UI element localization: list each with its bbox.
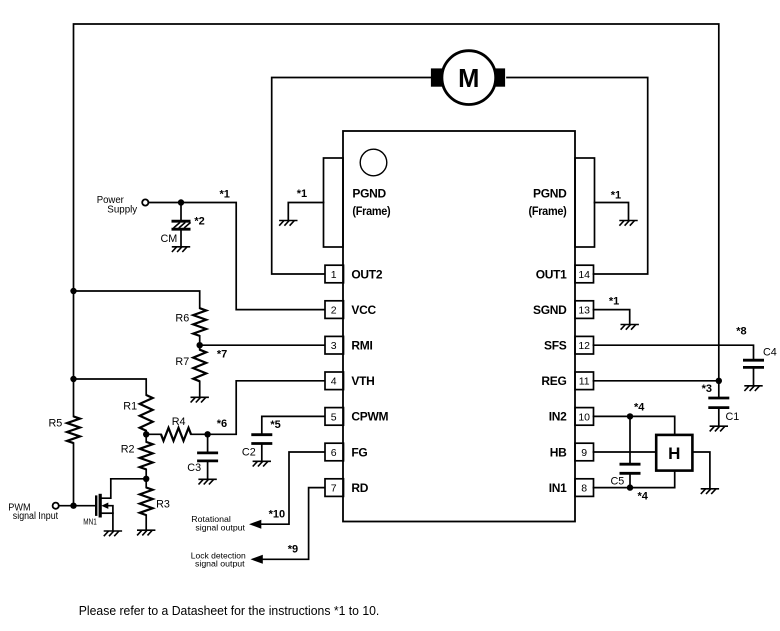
svg-text:*1: *1 [220, 189, 230, 201]
junction: R1/R2/R4 node [143, 431, 149, 437]
svg-text:*1: *1 [609, 295, 619, 307]
svg-text:VCC: VCC [351, 303, 376, 317]
wire: RMI node to pin 3 [200, 344, 325, 346]
svg-text:*4: *4 [638, 491, 649, 503]
wire: rail to R6 top [74, 291, 200, 308]
svg-text:SFS: SFS [544, 339, 567, 353]
svg-text:R4: R4 [172, 416, 186, 428]
wire: pin 1 OUT2 to motor [272, 78, 431, 275]
transistor MN1 (N-MOSFET) [83, 479, 113, 531]
svg-text:Supply: Supply [107, 204, 137, 215]
svg-text:R5: R5 [49, 417, 63, 429]
svg-text:REG: REG [541, 374, 566, 388]
wire: R1 bottom to node [145, 431, 147, 435]
ground (SGND) [621, 325, 639, 330]
svg-text:R2: R2 [121, 444, 135, 456]
resistor R1 [123, 395, 152, 431]
ground (R7) [191, 397, 209, 402]
resistor R7 [175, 345, 206, 381]
svg-text:R7: R7 [175, 356, 189, 368]
svg-text:CPWM: CPWM [351, 410, 388, 424]
svg-text:6: 6 [331, 447, 337, 459]
wire: pin 13 SGND to ground [594, 310, 630, 325]
wire: R2 bottom to node [145, 469, 147, 478]
pin 1 indicator circle [360, 149, 387, 176]
wire: MN1 drain to R2/R3 node [111, 478, 146, 480]
svg-text:HB: HB [550, 445, 567, 459]
svg-text:*5: *5 [270, 419, 280, 431]
svg-text:CM: CM [161, 233, 178, 245]
ground (MN1 source) [104, 531, 122, 536]
pin 11 (REG) [541, 372, 593, 390]
svg-text:13: 13 [578, 305, 590, 317]
wire: PWM input to MN1 gate [59, 505, 95, 507]
svg-text:R6: R6 [175, 313, 189, 325]
svg-text:8: 8 [581, 483, 587, 495]
wire: left rail lower segment (R5 to PWM node) [73, 443, 75, 506]
wire: hall H to ground [692, 452, 710, 489]
svg-text:2: 2 [331, 305, 337, 317]
wire: left PGND to ground [288, 203, 323, 221]
label: Rotational signal output [191, 514, 245, 532]
capacitor C1 [708, 381, 739, 426]
wire: motor to pin 14 OUT1 [507, 78, 648, 275]
wire: R6 bottom to RMI node [199, 336, 201, 345]
ground (C4) [744, 386, 762, 391]
svg-text:*6: *6 [217, 418, 227, 430]
arrow: rotational signal output (*10) [249, 509, 285, 529]
wire: node *6 to VTH (pin 4) [208, 381, 325, 435]
ground (right PGND) [619, 221, 637, 226]
wire: right PGND to ground [595, 203, 629, 221]
svg-text:R1: R1 [123, 400, 137, 412]
capacitor C3 [187, 434, 218, 479]
terminal: Power Supply input [97, 195, 149, 215]
svg-text:4: 4 [331, 376, 337, 388]
op-amp U1: motor driver IC body [343, 131, 575, 522]
wire: pin 12 SFS to C4 (*8) [594, 345, 754, 359]
svg-text:C5: C5 [611, 476, 625, 488]
terminal: PWM signal input [8, 502, 59, 522]
wire: pin 6 FG to rotational signal output [260, 452, 325, 524]
wire: R7 to ground [199, 381, 201, 397]
svg-text:SGND: SGND [533, 303, 567, 317]
junction: rail to R1 branch [70, 376, 76, 382]
pin 14 (OUT1) [536, 265, 594, 283]
wire: outer rail (left side up, across top, down right side to REG node) [74, 24, 719, 416]
pin 3 (RMI) [325, 336, 373, 354]
svg-text:5: 5 [331, 411, 337, 423]
svg-text:IN2: IN2 [549, 410, 567, 424]
pin 5 (CPWM) [325, 408, 388, 426]
pin 8 (IN1) [549, 479, 594, 497]
svg-text:9: 9 [581, 447, 587, 459]
svg-text:RD: RD [351, 481, 368, 495]
svg-text:*1: *1 [611, 189, 621, 201]
wire: pin 7 RD to lock detection signal output [261, 488, 325, 560]
capacitor CM (with *2 note) [161, 203, 205, 247]
pin 4 (VTH) [325, 372, 375, 390]
svg-text:R3: R3 [156, 498, 170, 510]
ground (R3) [137, 530, 155, 535]
svg-text:C4: C4 [763, 347, 777, 359]
capacitor C4 [743, 347, 777, 386]
svg-text:RMI: RMI [351, 339, 372, 353]
label: Lock detection signal output [191, 550, 246, 568]
wire: pin 5 CPWM to C2 [262, 416, 325, 434]
wire: power supply to VCC (pin 2) [149, 203, 325, 310]
junction: IN2/C5 node (*4) [627, 402, 645, 420]
svg-text:C3: C3 [187, 462, 201, 474]
svg-text:IN1: IN1 [549, 481, 567, 495]
resistor R5 [49, 416, 81, 443]
svg-text:1: 1 [331, 269, 337, 281]
capacitor C2 [242, 435, 272, 462]
svg-text:(Frame): (Frame) [529, 204, 567, 218]
hall sensor H [656, 435, 692, 471]
junction: PWM node on rail [70, 503, 76, 509]
svg-text:OUT1: OUT1 [536, 267, 567, 281]
svg-text:10: 10 [578, 411, 590, 423]
svg-text:M: M [458, 65, 479, 93]
svg-text:signal output: signal output [195, 559, 245, 569]
svg-text:14: 14 [578, 269, 590, 281]
svg-text:signal output: signal output [195, 522, 245, 532]
pin 2 (VCC) [325, 301, 376, 319]
wire: rail to R1 top [74, 379, 147, 395]
wire: pin 11 REG to rail node [594, 380, 719, 382]
pin PGND (Frame) left box [324, 158, 391, 247]
junction: RMI node (*7) [197, 342, 228, 360]
pin 1 (OUT2) [325, 265, 383, 283]
svg-text:signal Input: signal Input [13, 511, 59, 522]
wire: pin 10 IN2 to hall H top [594, 416, 675, 435]
pin PGND (Frame) right box [529, 158, 595, 247]
wire: pin 9 HB to hall H [594, 451, 657, 453]
svg-text:*9: *9 [288, 543, 298, 555]
junction: IN1/C5 node (*4) [627, 484, 649, 502]
ground (C3) [198, 479, 216, 484]
svg-text:(Frame): (Frame) [352, 204, 390, 218]
capacitor C5 [611, 416, 641, 487]
svg-text:12: 12 [578, 340, 590, 352]
junction: node *6 [204, 418, 227, 438]
pin 7 (RD) [325, 479, 369, 497]
junction: rail to R6 branch [70, 288, 76, 294]
ground (hall H) [701, 489, 719, 494]
svg-text:*8: *8 [736, 326, 746, 338]
svg-text:*4: *4 [634, 402, 645, 414]
wire: R3 to ground [145, 515, 147, 530]
ground (CM) [172, 247, 190, 252]
resistor R6 [175, 308, 206, 336]
svg-text:C1: C1 [726, 411, 740, 423]
svg-text:*1: *1 [297, 188, 307, 200]
svg-text:C2: C2 [242, 447, 256, 459]
pin 9 (HB) [550, 443, 594, 461]
svg-text:*3: *3 [702, 383, 712, 395]
svg-text:PGND: PGND [352, 187, 386, 201]
svg-text:VTH: VTH [351, 374, 374, 388]
pin 12 (SFS) [544, 336, 593, 354]
svg-text:3: 3 [331, 340, 337, 352]
svg-text:*7: *7 [217, 348, 227, 360]
pin 6 (FG) [325, 443, 367, 461]
junction: power / CM [178, 199, 184, 205]
pin 13 (SGND) [533, 301, 593, 319]
ground (C2) [253, 461, 271, 466]
motor M [431, 51, 505, 105]
ground (left PGND) [279, 221, 297, 226]
resistor R2 [121, 434, 153, 469]
svg-text:OUT2: OUT2 [351, 267, 382, 281]
resistor R3 [140, 479, 170, 515]
svg-text:*2: *2 [194, 216, 204, 228]
pin 10 (IN2) [549, 408, 594, 426]
wire: pin 8 IN1 to hall H bottom [594, 471, 675, 488]
svg-text:11: 11 [579, 376, 590, 388]
svg-text:*10: *10 [269, 509, 286, 521]
arrow: lock detection signal output (*9) [251, 543, 299, 564]
junction: REG node (*3) [702, 378, 722, 395]
ground (C1) [710, 426, 728, 431]
resistor R4 [146, 416, 207, 441]
junction: R2/R3/MN1-drain node [143, 476, 149, 482]
svg-text:Please refer to a Datasheet fo: Please refer to a Datasheet for the inst… [79, 603, 380, 618]
svg-text:FG: FG [351, 445, 367, 459]
svg-text:7: 7 [331, 483, 337, 495]
svg-text:H: H [668, 444, 680, 463]
svg-text:PGND: PGND [533, 187, 567, 201]
svg-text:MN1: MN1 [83, 517, 97, 527]
